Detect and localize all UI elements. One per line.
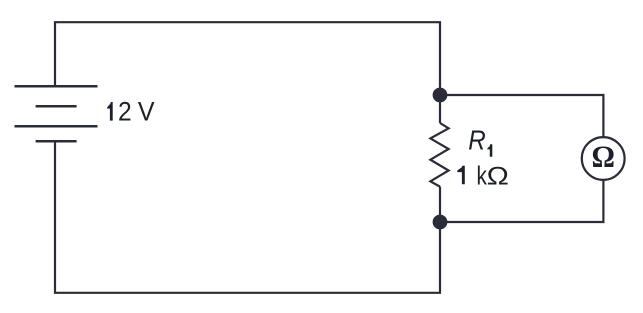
node A (top junction dot) (433, 88, 448, 103)
wire: meter branch top (node A to ohmmeter) (447, 95, 603, 137)
wire: resistor top lead from node A (439, 95, 441, 123)
svg-text:Ω: Ω (487, 161, 509, 189)
wire: top-left loop (left vertical above battery, top horizontal, right vertical down to node A) (55, 22, 440, 90)
battery B1 (12 V source, two cells) (15, 86, 98, 141)
svg-text:k: k (476, 162, 487, 191)
svg-text:2: 2 (118, 98, 132, 127)
ohmmeter M1 (circle) (582, 137, 625, 180)
label: R1 (reference designator) (468, 124, 492, 157)
label: 1 kΩ (resistor value) (457, 161, 509, 191)
svg-text:Ω: Ω (591, 140, 614, 174)
label: 12 V (battery value) (107, 96, 155, 127)
resistor R1 (zigzag) (430, 123, 448, 187)
wire: meter branch bottom (ohmmeter to node B) (447, 180, 603, 222)
svg-text:R: R (468, 124, 486, 156)
wire: resistor bottom lead to node B (439, 187, 441, 222)
label: Ω (ohmmeter symbol) (591, 140, 614, 174)
wire: bottom loop (left vertical below battery, bottom horizontal, right vertical up to node B) (55, 141, 440, 293)
svg-text:V: V (138, 96, 155, 127)
node B (bottom junction dot) (433, 215, 448, 230)
